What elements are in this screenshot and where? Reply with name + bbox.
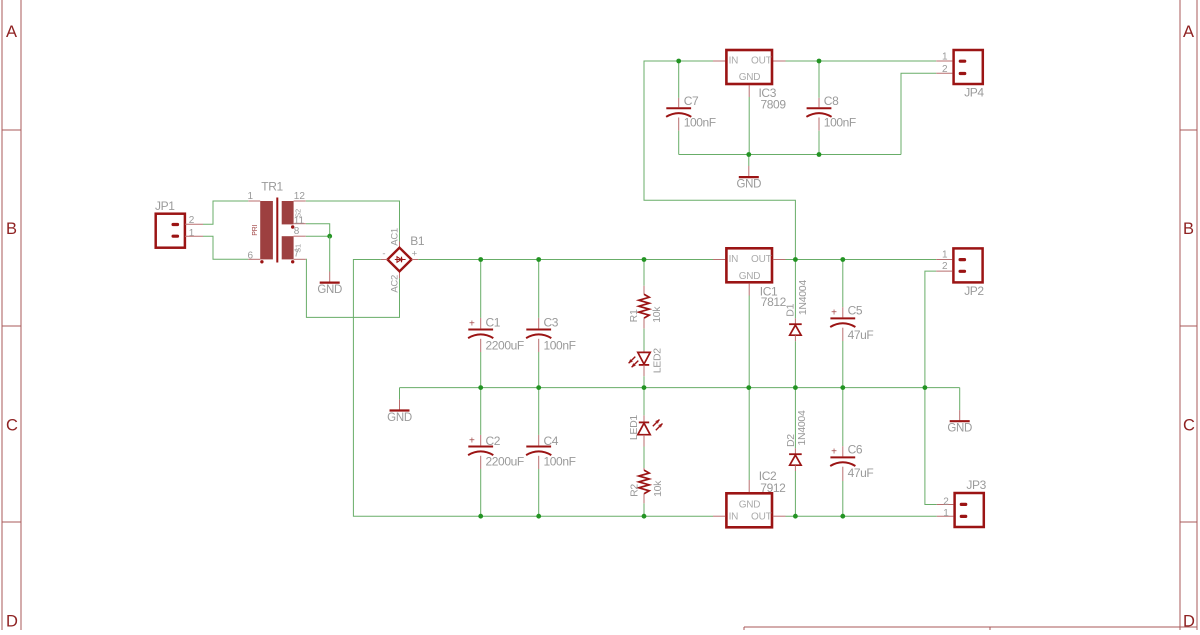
svg-text:47uF: 47uF [848, 466, 874, 480]
svg-text:S1: S1 [293, 244, 302, 253]
svg-text:C: C [6, 417, 18, 435]
svg-text:8: 8 [294, 226, 300, 237]
svg-text:6: 6 [247, 250, 253, 261]
svg-text:GND: GND [739, 72, 761, 83]
svg-text:C1: C1 [486, 315, 501, 329]
svg-text:7809: 7809 [761, 98, 787, 112]
svg-text:100nF: 100nF [824, 116, 856, 130]
svg-text:C8: C8 [824, 94, 839, 108]
svg-text:100nF: 100nF [684, 116, 716, 130]
svg-text:10k: 10k [652, 480, 664, 497]
svg-text:2200uF: 2200uF [486, 454, 524, 468]
svg-text:D: D [1183, 613, 1195, 631]
svg-text:C: C [1183, 417, 1195, 435]
svg-text:1: 1 [247, 191, 253, 202]
svg-text:A: A [1183, 23, 1194, 41]
svg-text:+: + [469, 436, 475, 447]
svg-text:C6: C6 [848, 443, 863, 457]
svg-text:2: 2 [942, 261, 948, 272]
svg-text:+: + [831, 308, 837, 319]
svg-text:1N4004: 1N4004 [796, 410, 808, 445]
svg-text:PRI: PRI [252, 224, 259, 235]
svg-text:OUT: OUT [751, 512, 772, 523]
svg-text:-: - [382, 248, 385, 259]
svg-text:GND: GND [317, 284, 342, 296]
svg-text:D1: D1 [784, 303, 796, 316]
svg-text:C5: C5 [848, 303, 863, 317]
svg-text:2: 2 [943, 496, 949, 507]
svg-text:47uF: 47uF [848, 328, 874, 342]
svg-text:AC1: AC1 [389, 228, 400, 246]
svg-text:OUT: OUT [751, 254, 772, 265]
svg-text:TR1: TR1 [261, 180, 283, 194]
svg-text:GND: GND [739, 271, 761, 282]
svg-text:GND: GND [947, 423, 972, 435]
svg-text:B: B [6, 220, 17, 238]
svg-text:B1: B1 [410, 234, 425, 248]
svg-text:GND: GND [739, 500, 761, 511]
svg-text:1: 1 [943, 508, 949, 519]
svg-text:JP4: JP4 [964, 86, 984, 100]
svg-text:+: + [412, 248, 418, 259]
svg-text:1: 1 [189, 228, 195, 239]
svg-text:2: 2 [942, 64, 948, 75]
svg-text:JP2: JP2 [964, 284, 984, 298]
svg-text:C2: C2 [486, 434, 501, 448]
svg-text:100nF: 100nF [544, 338, 576, 352]
svg-text:JP3: JP3 [966, 478, 986, 492]
svg-text:R2: R2 [628, 484, 640, 497]
svg-text:1: 1 [942, 249, 948, 260]
svg-text:OUT: OUT [751, 56, 772, 67]
svg-text:IN: IN [729, 512, 739, 523]
svg-text:C7: C7 [684, 94, 699, 108]
svg-text:A: A [6, 23, 17, 41]
svg-text:JP1: JP1 [155, 199, 175, 213]
svg-text:+: + [469, 319, 475, 330]
svg-text:1: 1 [942, 52, 948, 63]
svg-text:LED2: LED2 [651, 348, 663, 374]
svg-text:LED1: LED1 [628, 415, 640, 441]
svg-text:C4: C4 [544, 434, 559, 448]
svg-text:R1: R1 [628, 309, 640, 322]
svg-text:B: B [1183, 220, 1194, 238]
svg-text:IN: IN [729, 254, 739, 265]
svg-text:7812: 7812 [761, 295, 787, 309]
svg-text:100nF: 100nF [544, 454, 576, 468]
svg-text:1N4004: 1N4004 [797, 280, 809, 315]
svg-text:AC2: AC2 [389, 275, 400, 293]
svg-text:S2: S2 [293, 209, 302, 218]
svg-text:12: 12 [294, 191, 306, 202]
svg-text:D: D [6, 613, 18, 631]
svg-text:2200uF: 2200uF [486, 338, 524, 352]
svg-text:7912: 7912 [760, 481, 786, 495]
svg-text:GND: GND [387, 412, 412, 424]
svg-text:GND: GND [736, 179, 761, 191]
svg-text:IN: IN [729, 56, 739, 67]
svg-text:C3: C3 [544, 315, 559, 329]
svg-text:10k: 10k [651, 306, 663, 323]
svg-text:+: + [831, 447, 837, 458]
